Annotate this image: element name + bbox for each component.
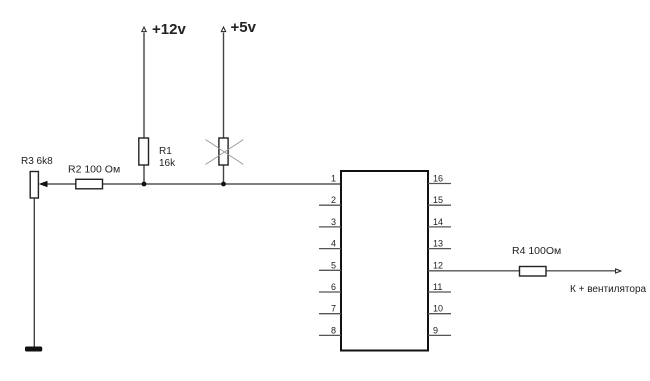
svg-text:10: 10 — [433, 304, 443, 314]
svg-text:4: 4 — [331, 239, 336, 249]
svg-text:К + вентилятора: К + вентилятора — [570, 284, 647, 295]
svg-text:+5v: +5v — [231, 19, 257, 36]
svg-text:16k: 16k — [159, 158, 176, 169]
svg-text:14: 14 — [433, 217, 443, 227]
svg-text:R1: R1 — [159, 146, 172, 157]
svg-text:R2 100 Ом: R2 100 Ом — [68, 164, 120, 176]
svg-text:9: 9 — [433, 325, 438, 335]
svg-text:16: 16 — [433, 174, 443, 184]
svg-text:2: 2 — [331, 195, 336, 205]
svg-text:13: 13 — [433, 239, 443, 249]
svg-text:R4 100Ом: R4 100Ом — [512, 245, 561, 257]
svg-text:5: 5 — [331, 260, 336, 270]
svg-text:6: 6 — [331, 282, 336, 292]
svg-text:11: 11 — [433, 282, 442, 292]
svg-text:8: 8 — [331, 325, 336, 335]
svg-text:15: 15 — [433, 195, 443, 205]
svg-text:12: 12 — [433, 260, 443, 270]
svg-text:R3 6k8: R3 6k8 — [21, 156, 53, 167]
svg-text:3: 3 — [331, 217, 336, 227]
svg-text:7: 7 — [331, 304, 336, 314]
svg-text:1: 1 — [331, 174, 336, 184]
svg-text:+12v: +12v — [152, 21, 186, 38]
